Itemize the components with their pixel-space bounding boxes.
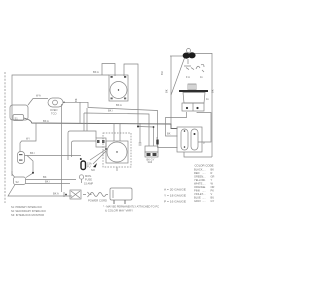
svg-text:BK: BK xyxy=(165,89,169,93)
svg-text:RED: RED xyxy=(194,171,200,175)
svg-text:BK /: BK / xyxy=(108,109,113,113)
svg-text:GY: GY xyxy=(211,199,215,203)
svg-text:BU: BU xyxy=(160,71,164,75)
svg-text:A = 20 GAUGE: A = 20 GAUGE xyxy=(164,188,186,192)
svg-text:15 AMP: 15 AMP xyxy=(84,182,93,186)
svg-text:W A: W A xyxy=(36,94,41,98)
svg-text:.....: ..... xyxy=(202,200,206,203)
svg-text:GRAY: GRAY xyxy=(194,199,201,203)
svg-text:BK /: BK / xyxy=(45,180,50,184)
svg-text:PINK: PINK xyxy=(194,189,200,193)
svg-text:GR: GR xyxy=(211,175,215,179)
svg-text:* - MAY BE PERMANENTLY ATTACHE: * - MAY BE PERMANENTLY ATTACHED TO PC xyxy=(103,205,159,209)
svg-text:Y = 18 GAUGE: Y = 18 GAUGE xyxy=(164,194,186,198)
svg-text:Y: Y xyxy=(211,178,213,182)
svg-text:TCO: TCO xyxy=(51,112,56,116)
svg-text:V: V xyxy=(203,141,205,145)
svg-text:Y: Y xyxy=(156,136,158,140)
svg-text:S3: INTERLOCK MONITOR: S3: INTERLOCK MONITOR xyxy=(11,213,44,217)
svg-text:3A3: 3A3 xyxy=(148,160,153,164)
svg-text:R: R xyxy=(211,171,213,175)
svg-text:S2: S2 xyxy=(16,180,20,184)
svg-text:FU: FU xyxy=(87,165,91,169)
svg-text:S2: SECONDARY INTERLOCK: S2: SECONDARY INTERLOCK xyxy=(11,209,46,213)
svg-text:BU: BU xyxy=(211,196,215,200)
svg-text:BK A: BK A xyxy=(93,70,99,74)
svg-text:FUSE: FUSE xyxy=(85,178,92,182)
svg-text:V: V xyxy=(211,192,213,196)
svg-text:BK: BK xyxy=(211,89,215,93)
svg-text:S1: S1 xyxy=(15,116,19,120)
svg-text:BK A: BK A xyxy=(43,119,49,123)
svg-text:S1: PRIMARY INTERLOCK: S1: PRIMARY INTERLOCK xyxy=(11,205,42,209)
svg-text:P = 16 GAUGE: P = 16 GAUGE xyxy=(164,200,186,204)
svg-text:BK: BK xyxy=(211,168,215,172)
svg-text:W /: W / xyxy=(26,137,30,141)
svg-text:OVEN: OVEN xyxy=(50,108,57,112)
svg-text:BK A: BK A xyxy=(116,103,122,107)
svg-text:F A: F A xyxy=(186,75,190,79)
svg-text:& COLOR MAY VARY: & COLOR MAY VARY xyxy=(105,209,133,213)
svg-text:MON.: MON. xyxy=(85,174,92,178)
svg-text:PK: PK xyxy=(211,189,215,193)
svg-text:BK /: BK / xyxy=(30,151,35,155)
svg-text:BK: BK xyxy=(43,175,47,179)
svg-text:BK: BK xyxy=(74,98,78,102)
svg-text:OR: OR xyxy=(211,185,215,189)
svg-text:COLOR CODE: COLOR CODE xyxy=(195,164,214,168)
svg-text:POWER CORD: POWER CORD xyxy=(88,199,107,203)
svg-text:BK A: BK A xyxy=(53,192,59,196)
svg-text:NO: NO xyxy=(91,168,95,172)
svg-text:BLUE: BLUE xyxy=(194,196,201,200)
svg-text:BK: BK xyxy=(167,132,171,136)
